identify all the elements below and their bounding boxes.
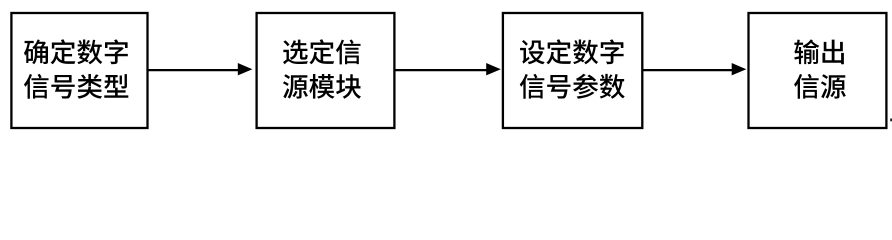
process box 1 (确定数字信号类型) <box>11 13 147 128</box>
box 4 text line 1: 输出 <box>794 39 844 64</box>
box 2 text line 2: 源模块 <box>283 74 361 99</box>
process box 2 (选定信源模块) <box>257 13 395 128</box>
box 2 text line 1: 选定信 <box>283 39 360 64</box>
box 1 text line 1: 确定数字 <box>24 39 128 64</box>
arrow 3: box 3 to box 4 <box>642 63 746 75</box>
box 3 text line 2: 信号参数 <box>520 74 625 99</box>
stray mark (edge artifact, bottom right) <box>890 119 892 122</box>
box 1 text line 2: 信号类型 <box>24 74 128 99</box>
arrow 1: box 1 to box 2 <box>148 63 253 75</box>
arrow 2: box 2 to box 3 <box>394 63 500 75</box>
process box 4 (输出信源) <box>749 13 887 128</box>
process box 3 (设定数字信号参数) <box>503 13 642 128</box>
box 3 text line 1: 设定数字 <box>520 39 624 64</box>
box 4 text line 2: 信源 <box>794 74 846 99</box>
